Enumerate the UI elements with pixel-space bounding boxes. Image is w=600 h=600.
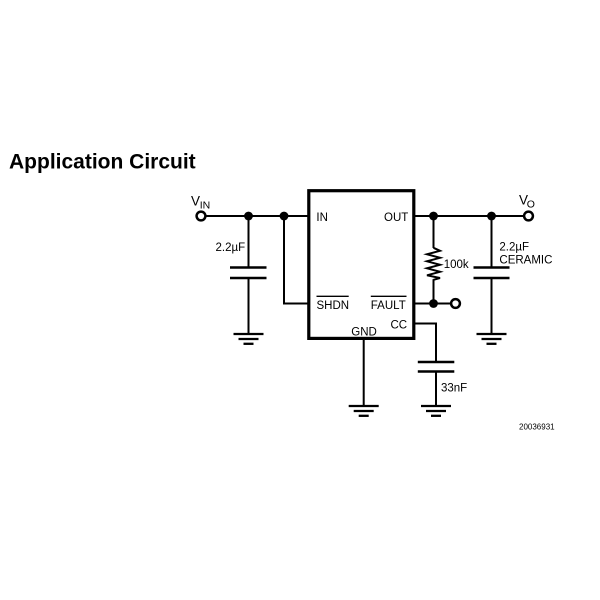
capacitor C1 2.2uF <box>216 242 267 278</box>
wire SHDN branch <box>284 216 309 304</box>
pin SHDN <box>317 296 350 312</box>
wire C3 bottom lead <box>435 372 437 407</box>
node FAULT output terminal <box>451 299 460 308</box>
svg-text:SHDN: SHDN <box>317 300 350 312</box>
svg-text:GND: GND <box>351 327 377 339</box>
svg-text:O: O <box>527 199 535 211</box>
ground (C3) <box>421 406 451 416</box>
wire C1 top lead <box>248 216 250 267</box>
svg-text:IN: IN <box>316 212 328 224</box>
ground (GND pin) <box>349 406 379 416</box>
wire GND pin lead <box>363 338 365 406</box>
wire junction to FAULT terminal <box>434 303 451 305</box>
ground (right, C2) <box>477 334 507 344</box>
svg-text:CC: CC <box>391 320 408 332</box>
junction at R1 top <box>429 212 438 221</box>
svg-text:33nF: 33nF <box>441 383 467 395</box>
junction at C2 <box>487 212 496 221</box>
capacitor C2 2.2uF CERAMIC <box>474 242 553 279</box>
ground (left, C1) <box>234 334 264 344</box>
svg-text:OUT: OUT <box>384 212 408 224</box>
node VO <box>519 192 535 220</box>
svg-text:100k: 100k <box>444 259 469 271</box>
wire CC branch <box>413 324 436 362</box>
svg-text:20036931: 20036931 <box>519 423 555 432</box>
svg-text:2.2µF: 2.2µF <box>216 242 246 254</box>
pin FAULT <box>371 296 407 312</box>
node VIN <box>191 193 210 220</box>
svg-text:IN: IN <box>200 199 211 211</box>
wire C2 bottom lead <box>491 278 493 334</box>
wire VIN to IN pin <box>207 215 309 217</box>
capacitor C3 33nF <box>418 362 467 395</box>
svg-text:V: V <box>191 193 200 208</box>
junction at SHDN branch <box>280 212 289 221</box>
svg-text:FAULT: FAULT <box>371 300 406 312</box>
svg-text:Application Circuit: Application Circuit <box>9 151 196 174</box>
IC U1 regulator box <box>309 191 414 339</box>
resistor R1 100k <box>427 216 469 304</box>
wire FAULT pin to junction <box>413 303 434 305</box>
junction at R1 bottom / FAULT <box>429 299 438 308</box>
wire OUT to VO <box>413 215 523 217</box>
svg-text:CERAMIC: CERAMIC <box>499 255 552 267</box>
svg-text:2.2µF: 2.2µF <box>499 242 529 254</box>
wire C2 top lead <box>491 216 493 267</box>
junction at C1 <box>244 212 253 221</box>
wire C1 bottom lead <box>248 278 250 334</box>
